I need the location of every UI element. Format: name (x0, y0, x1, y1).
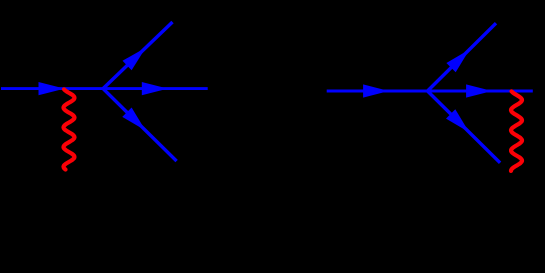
right diagram: outgoing fermion line horizontal right (428, 90, 533, 93)
arrowhead on left horizontal outgoing fermion line (142, 82, 168, 95)
left diagram: photon wavy line radiated from incoming line (64, 89, 75, 169)
arrowhead on right horizontal outgoing fermion line (466, 84, 492, 97)
right diagram: photon wavy line radiated from outgoing horizontal line (511, 91, 522, 171)
arrowhead on left incoming fermion line (39, 82, 65, 95)
left diagram: outgoing fermion line horizontal right (103, 87, 208, 90)
arrowhead on right up-right fermion line (446, 49, 469, 72)
right diagram: outgoing fermion line up-right (428, 23, 497, 91)
right diagram: outgoing fermion line down-right (428, 91, 501, 163)
arrowhead on left up-right fermion line (123, 48, 146, 71)
left diagram: incoming fermion line (1, 87, 103, 90)
arrowhead on left down-right fermion line (122, 108, 145, 131)
arrowhead on right down-right fermion line (446, 109, 469, 132)
arrowhead on right incoming fermion line (363, 84, 389, 97)
left diagram: outgoing fermion line up-right (103, 22, 173, 89)
left diagram: outgoing fermion line down-right (103, 89, 177, 162)
right diagram: incoming fermion line (327, 90, 428, 93)
